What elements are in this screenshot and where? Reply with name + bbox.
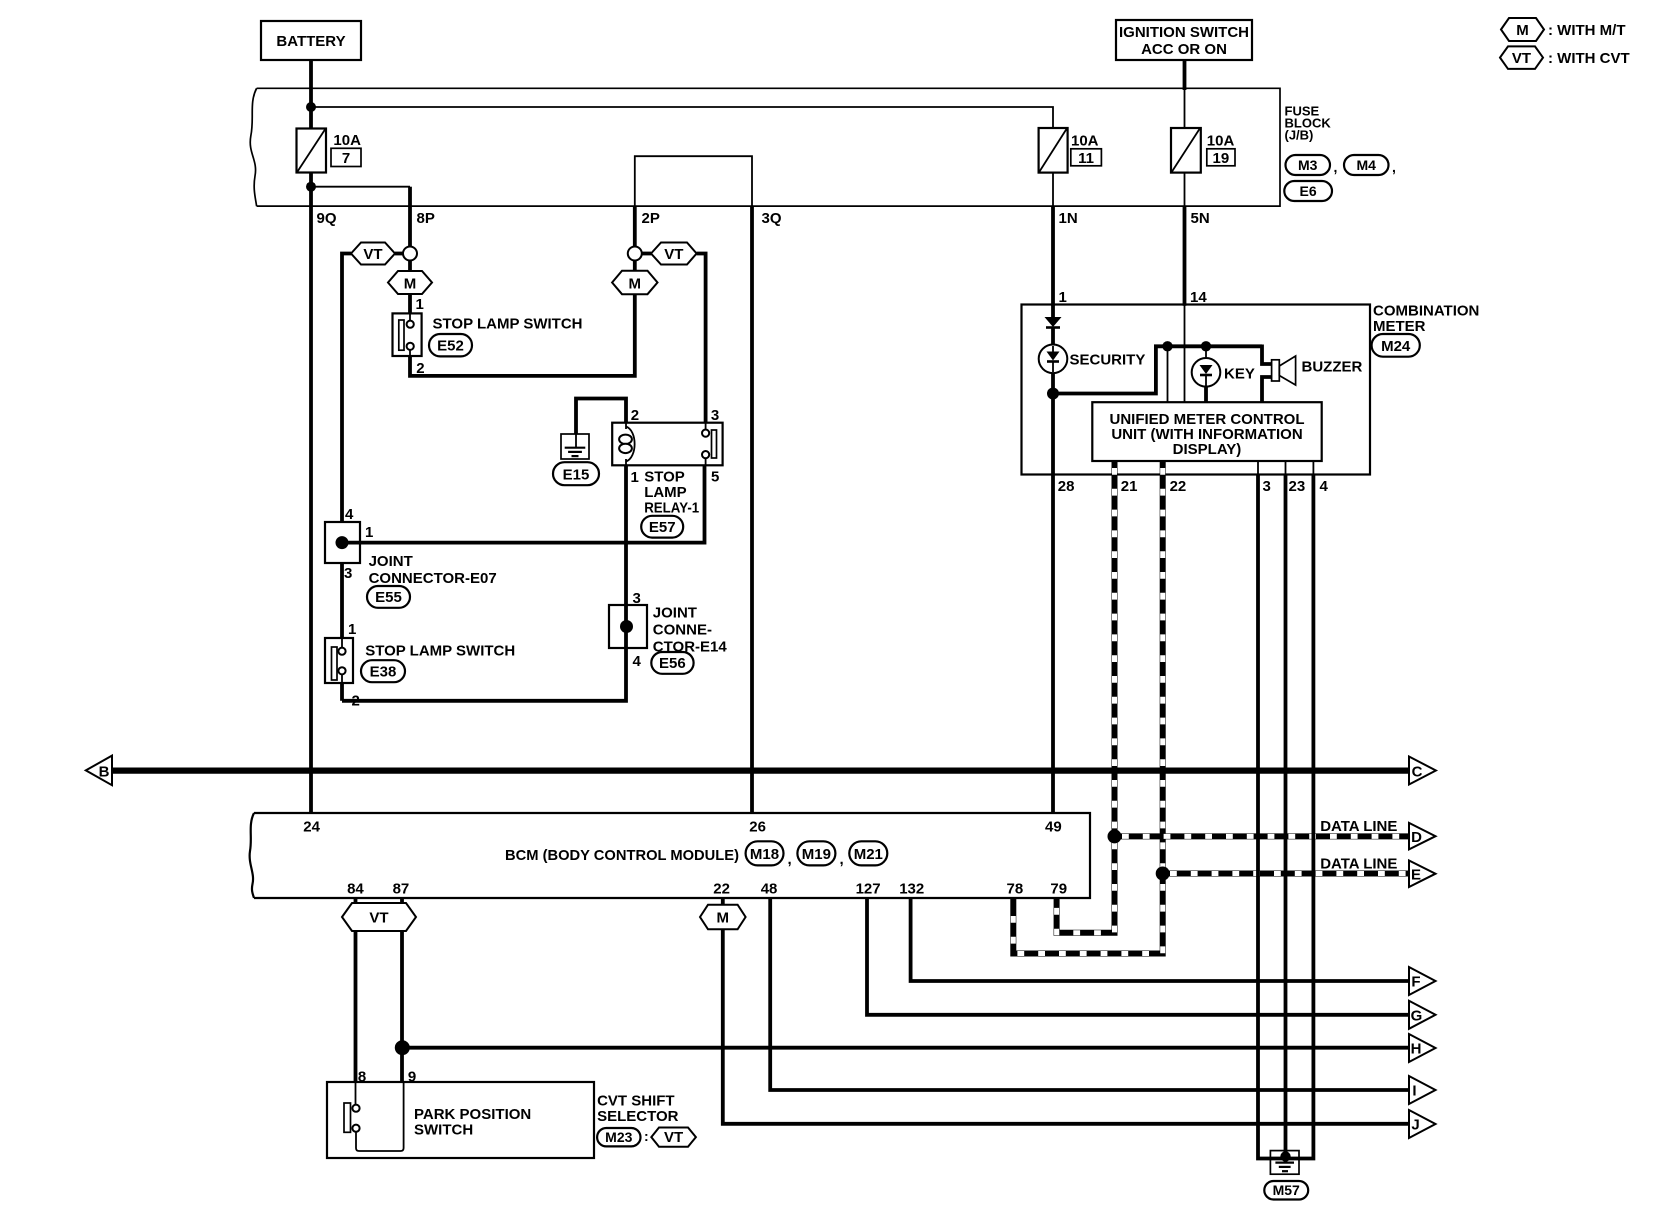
svg-text:9Q: 9Q [317,210,337,227]
M hexagon on 8P [388,271,432,294]
M hexagon below BCM [700,905,746,930]
svg-text:8P: 8P [417,210,435,227]
label JOINT CONNE-CTOR-E14 [653,605,728,656]
svg-text:3Q: 3Q [762,210,782,227]
wire junction to key/buzzer feed [1053,346,1262,393]
svg-text:DATA LINE: DATA LINE [1320,818,1397,835]
svg-text:1: 1 [631,469,639,486]
ground E15 [561,434,589,459]
svg-text:10A: 10A [1071,133,1099,150]
arrow I [1409,1076,1436,1104]
wire BCM pin132 to F [911,898,1409,981]
svg-text:11: 11 [1078,150,1094,167]
svg-text:E6: E6 [1300,183,1317,199]
connector circle on 8P [403,247,417,261]
connector oval E56 [651,652,693,674]
svg-text:VT: VT [363,246,382,263]
legend M hexagon : WITH M/T [1501,18,1625,41]
wire relay pin5 to E55 pin1 [342,465,705,542]
wire key LED to unified meter control unit [1204,387,1208,403]
svg-text:BUZZER: BUZZER [1302,359,1363,376]
label STOP LAMP RELAY-1 [644,469,699,517]
wire E38 pin2 down [340,683,344,701]
data line meter pin21 to BCM pin79 [1057,461,1115,933]
connector oval M18 [746,841,792,868]
wire battery to fuse 7 [309,60,313,129]
svg-text::: : [644,1128,649,1144]
joint connector-E07 E55 box [325,522,360,563]
junction below security LED [1047,388,1059,400]
svg-text:M: M [629,276,642,293]
svg-text:M4: M4 [1356,157,1376,173]
svg-text:STOP LAMP SWITCH: STOP LAMP SWITCH [433,316,583,333]
svg-text:E57: E57 [649,519,676,536]
svg-text:87: 87 [393,881,410,898]
VT hexagon CVT shift selector [651,1128,696,1147]
svg-text:21: 21 [1121,478,1138,495]
svg-text:,: , [1334,159,1338,175]
svg-text:DATA LINE: DATA LINE [1320,856,1397,873]
fuse block label FUSE BLOCK (J/B) [1285,104,1332,143]
connector oval M23 [597,1128,649,1146]
junction key feed right [1201,341,1211,351]
VT hexagon right branch [651,243,697,265]
svg-text:G: G [1411,1008,1423,1025]
wire VT hexagon to E55 drop [342,254,351,523]
svg-text:48: 48 [761,881,778,898]
svg-text:3: 3 [711,407,719,424]
wire junction to key LED [1205,346,1207,358]
svg-text:: WITH CVT: : WITH CVT [1548,50,1630,67]
wire junction 87 to H [402,1046,1409,1050]
connector oval M19 [797,841,843,868]
wire meter pin1 to diode [1051,305,1055,319]
wire 1N down to combination meter pin 1 [1051,206,1055,306]
svg-text:10A: 10A [333,132,361,149]
svg-text:I: I [1412,1083,1416,1100]
svg-text:CONNE-: CONNE- [653,622,712,639]
arrow D [1409,823,1436,850]
arrow F [1409,967,1436,995]
arrow H [1409,1034,1436,1062]
junction key feed left [1162,341,1172,351]
svg-text:,: , [840,851,844,868]
joint connector-E14 E56 box [609,605,647,648]
svg-text:F: F [1411,974,1420,991]
ignition switch SW1 [1116,20,1252,60]
bus line B to C [112,767,1409,773]
connector oval M24 [1372,334,1420,357]
svg-text:28: 28 [1058,478,1075,495]
VT hexagon below BCM [342,903,416,931]
wire meter pin28 to BCM pin49 [1051,475,1055,814]
svg-text:B: B [99,764,110,781]
connector oval E6 [1284,181,1332,201]
wire ground E15 to relay pin 2 [576,399,626,435]
svg-text:IGNITION SWITCH: IGNITION SWITCH [1119,24,1249,41]
svg-text:CONNECTOR-E07: CONNECTOR-E07 [369,570,497,587]
svg-text:M19: M19 [802,846,831,863]
wire E55 pin3 to E38 pin1 [340,563,344,639]
wire buzzer bottom terminal to unified unit [1262,377,1272,402]
svg-text:22: 22 [713,881,730,898]
stop lamp switch E52 [393,313,422,356]
svg-text:5N: 5N [1191,210,1210,227]
connector oval M4 [1344,155,1396,175]
svg-text:4: 4 [1320,478,1329,495]
wire VT branch stub left [395,252,404,256]
connector oval E38 [361,660,405,682]
svg-text:10A: 10A [1207,133,1235,150]
svg-text:132: 132 [899,881,924,898]
svg-text:M57: M57 [1273,1182,1300,1198]
wire circle to M hexagon [408,260,412,272]
svg-text:1: 1 [416,296,424,313]
svg-text:1N: 1N [1059,210,1078,227]
junction data line E [1156,867,1170,881]
M hexagon on 2P [612,271,657,295]
wire meter pin23 to ground M57 [1284,475,1288,1157]
key LED [1192,358,1221,387]
connector oval E15 [553,462,599,485]
buzzer [1272,356,1296,385]
svg-text:E52: E52 [437,338,464,355]
svg-text:(J/B): (J/B) [1285,128,1314,143]
unified meter control unit box [1092,402,1321,461]
svg-text:M: M [1516,22,1529,39]
svg-text:M18: M18 [750,846,779,863]
legend VT hexagon : WITH CVT [1500,46,1630,69]
unified unit pin stubs 3 23 4 [1257,461,1259,475]
svg-text:STOP LAMP SWITCH: STOP LAMP SWITCH [365,643,515,660]
svg-text:,: , [1392,159,1396,175]
svg-text:4: 4 [345,506,354,523]
wire junction to 8P drop [311,186,410,188]
svg-text:M23: M23 [605,1129,632,1145]
label COMBINATION METER [1373,303,1479,336]
VT hexagon left branch [351,243,395,265]
svg-text:E: E [1411,867,1421,884]
fuse 7 [297,129,362,173]
wire meter pin3 to ground M57 [1258,475,1286,1159]
svg-text:JOINT: JOINT [369,553,413,570]
wire 3Q down to BCM pin 26 [750,206,754,813]
wire BCM pin22 to J [723,898,1409,1124]
svg-text:H: H [1411,1041,1422,1058]
arrow G [1409,1001,1436,1029]
svg-text:COMBINATION: COMBINATION [1373,303,1479,320]
junction on wire 87 [395,1040,410,1055]
svg-text:M24: M24 [1381,338,1411,355]
wire VT hexagon to relay pin 3 [697,254,706,423]
svg-text:SECURITY: SECURITY [1070,352,1146,369]
svg-text:23: 23 [1289,478,1306,495]
fuse block (J/B) outline [250,88,1280,206]
svg-text:METER: METER [1373,318,1426,335]
diode D1 [1045,317,1062,328]
connector oval E55 [367,586,410,608]
wire diode to security LED [1051,328,1055,345]
svg-text:C: C [1412,764,1423,781]
wire 9Q down to BCM pin 24 [309,206,313,813]
svg-text:24: 24 [303,819,320,836]
wire fuse 19 to 5N [1184,173,1186,207]
svg-text:22: 22 [1170,478,1187,495]
label JOINT CONNECTOR-E07 [369,553,497,587]
svg-text:3: 3 [344,565,352,582]
wire E52 pin2 to M hexagon of 2P [410,294,635,376]
svg-text:: WITH M/T: : WITH M/T [1548,22,1625,39]
svg-text:BCM (BODY CONTROL MODULE): BCM (BODY CONTROL MODULE) [505,847,739,864]
svg-text:2: 2 [631,407,639,424]
svg-text:BATTERY: BATTERY [276,33,345,50]
wire security LED to meter pin 28 [1051,373,1055,474]
connector oval E57 [641,516,683,538]
wire 8P down to connector circle [408,206,412,247]
wire circle to VT hexagon right [642,252,652,256]
svg-text:4: 4 [633,653,642,670]
svg-text:7: 7 [342,150,350,167]
svg-text:KEY: KEY [1224,366,1255,383]
svg-text:2: 2 [352,693,360,710]
data line to D [1115,833,1410,839]
svg-text:3: 3 [1263,478,1271,495]
svg-text:SELECTOR: SELECTOR [597,1108,679,1125]
wire junction to unified meter control unit [1167,346,1169,402]
svg-text:M: M [717,910,730,927]
data line meter pin22 to BCM pin78 [1013,461,1162,954]
svg-text:19: 19 [1213,150,1230,167]
combination meter box [1022,305,1371,475]
arrow J [1409,1110,1436,1138]
wire BCM pin87 to park position switch pin9 [400,898,404,1082]
svg-text:SWITCH: SWITCH [414,1122,473,1139]
fuse 19 [1171,128,1235,173]
svg-text:E56: E56 [659,655,686,672]
arrow C [1409,757,1436,785]
svg-text:D: D [1411,829,1422,846]
data line to E [1163,871,1409,877]
BCM box [250,813,1090,898]
svg-text:JOINT: JOINT [653,605,697,622]
svg-text:78: 78 [1007,881,1024,898]
connector oval M3 [1286,155,1338,175]
ground M57 [1270,1151,1299,1175]
wire buzzer top terminal [1262,345,1272,365]
wire fuse 11 to 1N [1052,173,1054,207]
wire BCM pin127 to G [867,898,1409,1015]
arrow E [1409,861,1436,888]
svg-text:J: J [1411,1117,1419,1134]
connector oval M21 [849,841,887,865]
wire 14 to unified meter control unit [1184,305,1186,403]
svg-text:M3: M3 [1298,157,1318,173]
connector circle on 2P [628,247,642,261]
svg-text:M: M [404,276,417,293]
svg-text:5: 5 [711,469,719,486]
label PARK POSITION SWITCH [414,1106,531,1139]
svg-text:1: 1 [348,621,356,638]
security LED [1039,345,1068,374]
svg-text:CVT SHIFT: CVT SHIFT [597,1093,675,1110]
wire 2P down to connector circle [633,206,637,247]
svg-text:VT: VT [369,910,388,927]
svg-text:STOP: STOP [644,469,685,486]
svg-text:VT: VT [664,246,683,263]
svg-text:49: 49 [1045,819,1062,836]
svg-text:26: 26 [749,819,766,836]
svg-text:E38: E38 [370,664,397,681]
connector oval M57 [1264,1181,1308,1200]
wire bus inside fuse block to fuse 11 [311,107,1053,128]
wire 5N down to combination meter pin 14 [1183,206,1187,306]
wire ignition to fuse 19 [1183,60,1187,90]
svg-text:VT: VT [664,1129,683,1146]
stop lamp switch E38 [325,638,353,683]
svg-text:PARK POSITION: PARK POSITION [414,1106,531,1123]
junction battery feed [306,102,316,112]
label CVT SHIFT SELECTOR [597,1093,679,1126]
junction below fuse 7 [306,182,316,192]
svg-text:79: 79 [1050,881,1067,898]
svg-text:ACC OR ON: ACC OR ON [1141,41,1227,58]
fuse 11 [1039,128,1102,173]
wire fuse 7 to 9Q [309,173,313,207]
wire relay pin1 through E56 to E38 row [342,465,626,701]
wire 2P 3Q loop inside fuse block [635,156,752,206]
svg-text:2P: 2P [642,210,660,227]
svg-text:127: 127 [856,881,881,898]
wire meter pin4 to ground M57 [1286,475,1314,1159]
svg-text:E15: E15 [563,467,590,484]
battery B1 [261,21,361,60]
wire circle to M hexagon on 2P [633,260,637,271]
park position switch box [327,1082,594,1158]
svg-text:DISPLAY): DISPLAY) [1173,441,1242,458]
stop lamp relay-1 E57 [612,423,722,466]
svg-text:RELAY-1: RELAY-1 [644,499,699,516]
arrow B [86,756,112,786]
wire BCM pin84 to park position switch pin8 [354,898,358,1082]
svg-text:VT: VT [1512,50,1531,67]
connector oval E52 [429,334,472,356]
junction data line D [1108,829,1122,843]
wire M hexagon to E52 [408,294,412,314]
svg-text:M21: M21 [854,846,883,863]
svg-text:E55: E55 [375,589,402,606]
svg-text:84: 84 [347,881,364,898]
svg-text:,: , [788,851,792,868]
svg-text:1: 1 [365,524,373,541]
wire BCM pin48 to I [770,898,1409,1090]
